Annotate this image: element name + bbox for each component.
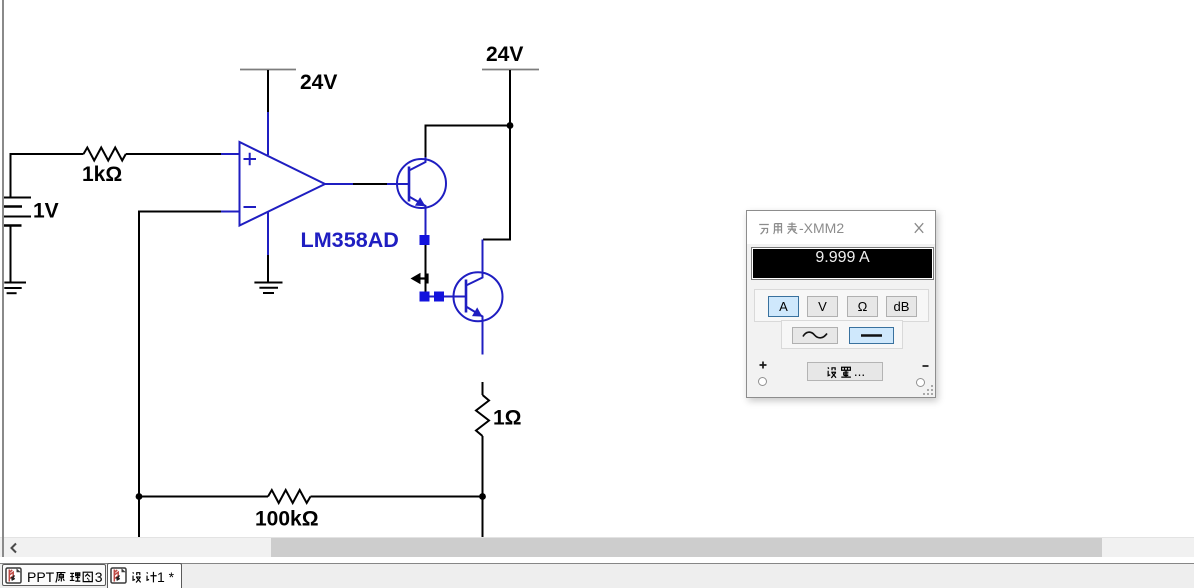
display [751, 247, 934, 280]
selection handle (emitter wire) [420, 235, 430, 245]
button DC (selected) [849, 327, 894, 344]
wire feedback to op-amp − input [139, 212, 221, 538]
op-amp U1 [221, 112, 353, 255]
left arrow [8, 542, 20, 554]
Q2 emitter arrow [472, 307, 482, 316]
plus terminal label [759, 361, 767, 369]
junction (24V rail) [507, 122, 514, 129]
button AC [792, 327, 838, 344]
button A (selected) [768, 296, 799, 317]
sheet border over scrollbar [2, 537, 4, 557]
tab 2 label [130, 569, 174, 584]
signal group frame [781, 320, 903, 349]
plus terminal jack [758, 377, 767, 386]
Q1 emitter arrow [415, 197, 426, 206]
resistor R2 100kΩ wire [139, 496, 483, 498]
voltage source V1 [4, 198, 31, 283]
ground (op-amp) [254, 283, 282, 294]
power rail 24V (op-amp supply) [240, 69, 296, 71]
close button [914, 222, 924, 234]
tab 设计1 * (active) [107, 563, 182, 588]
tab PPT原理图3 (inactive) [2, 564, 106, 586]
junction (output node) [479, 493, 486, 500]
scrollbar thumb [271, 538, 1102, 557]
svg-text:LM358AD: LM358AD [301, 227, 399, 252]
button dB [886, 296, 917, 317]
current probe arrow [413, 274, 428, 284]
power rail 24V (output stage) [482, 69, 539, 71]
selection handle (node) [420, 292, 430, 302]
transistor Q1 [397, 157, 446, 235]
wire op-amp V- pin to ground [267, 255, 269, 282]
resistor R3 1Ω [476, 395, 489, 436]
tab 1 label [27, 569, 103, 584]
wire Q1 emitter to Q2 base (selected, black) [425, 245, 427, 292]
svg-text:1kΩ: 1kΩ [82, 163, 122, 186]
wire multimeter gap to R3 [482, 382, 484, 395]
wire R3 to output node [482, 436, 484, 537]
wire node to Q2 base [430, 296, 467, 298]
svg-text:1Ω: 1Ω [493, 407, 522, 430]
transistor Q2 [454, 240, 503, 355]
sheet left border [2, 0, 4, 557]
ground (source) [4, 283, 26, 294]
resistor R1 1kΩ [84, 148, 126, 161]
minus terminal label [922, 364, 929, 368]
wire: source top to R1 and op-amp + input [11, 154, 223, 198]
svg-text:24V: 24V [486, 43, 523, 66]
resize grip [923, 385, 934, 396]
tab icon 2 [110, 567, 128, 585]
minus terminal jack [916, 378, 925, 387]
svg-text:1V: 1V [33, 200, 59, 223]
button Ω [847, 296, 878, 317]
title text 万用表-XMM2 [757, 220, 844, 235]
wire Q1 collector to 24V rail junction [426, 126, 511, 158]
wire rail to op-amp V+ pin [267, 70, 269, 112]
wire 24V rail down to Q2 collector elbow [483, 70, 510, 240]
selection handle (base wire) [434, 292, 444, 302]
svg-text:24V: 24V [300, 71, 337, 94]
button V [807, 296, 838, 317]
svg-text:100kΩ: 100kΩ [255, 508, 319, 531]
resistor R2 100kΩ [268, 490, 311, 503]
mode group frame [754, 289, 929, 322]
junction (feedback node) [136, 493, 143, 500]
settings button 设置... [807, 362, 883, 381]
wire op-amp output to Q1 base [353, 183, 387, 185]
title bar [747, 211, 935, 244]
tab icon 1 [5, 567, 23, 585]
